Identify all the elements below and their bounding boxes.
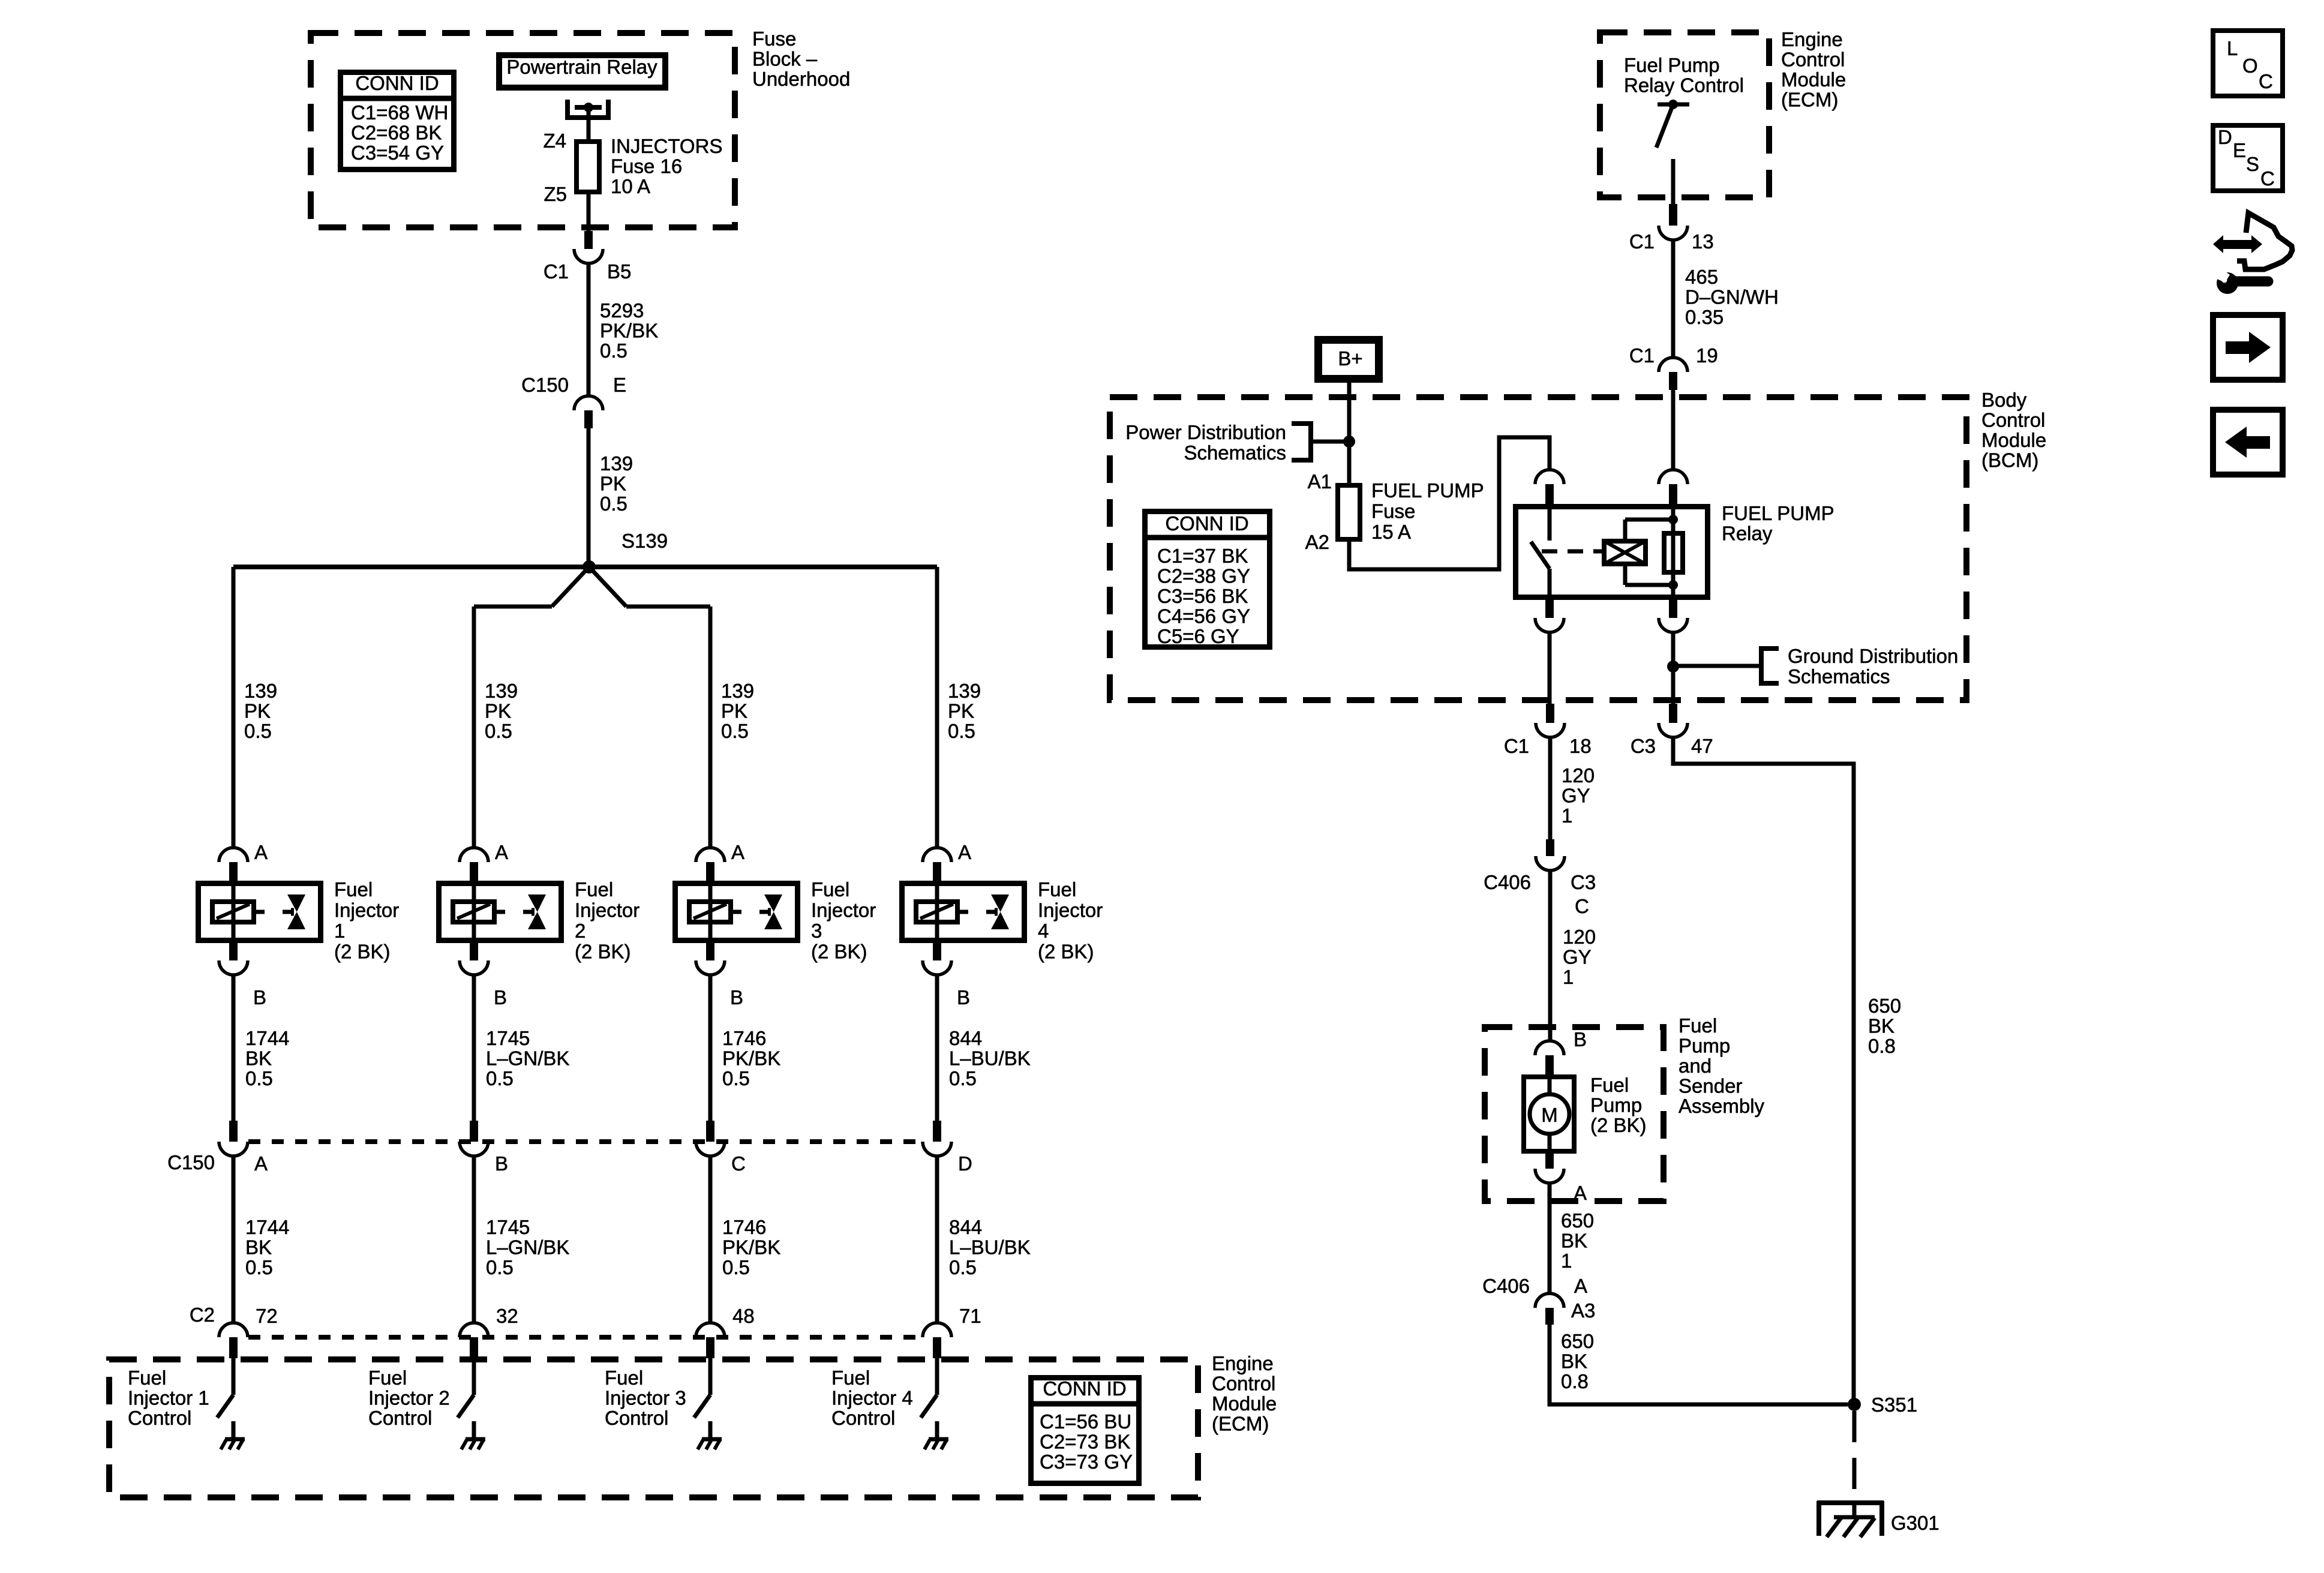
svg-text:L–GN/BK: L–GN/BK bbox=[486, 1236, 569, 1259]
body control module box bbox=[1110, 397, 1966, 700]
wire branch to injector 2 bbox=[552, 567, 589, 607]
label Fuel Pump (2 BK) bbox=[1590, 1074, 1647, 1136]
pin 72 C2 bbox=[256, 1305, 278, 1327]
svg-text:47: 47 bbox=[1691, 735, 1713, 757]
relay contact bar bbox=[575, 105, 602, 110]
pin Z4 bbox=[543, 130, 566, 152]
svg-text:C1: C1 bbox=[544, 260, 569, 283]
pin 47 bbox=[1691, 735, 1713, 757]
svg-text:CONN ID: CONN ID bbox=[1043, 1377, 1126, 1400]
icon vehicle with arrow and wrench bbox=[2212, 213, 2292, 294]
pin B injector 4 bbox=[957, 986, 970, 1008]
svg-text:C150: C150 bbox=[521, 374, 569, 396]
svg-text:S: S bbox=[2246, 153, 2259, 175]
svg-text:BK: BK bbox=[245, 1236, 272, 1259]
letter D bbox=[2218, 126, 2232, 148]
svg-text:M: M bbox=[1541, 1104, 1558, 1126]
svg-text:C2=73 BK: C2=73 BK bbox=[1040, 1431, 1130, 1453]
pin B injector 2 bbox=[494, 986, 507, 1008]
label Powertrain Relay bbox=[506, 56, 657, 78]
pin A injector 4 bbox=[958, 841, 971, 863]
wire 139 PK branch injector 1 bbox=[232, 567, 236, 848]
svg-text:1745: 1745 bbox=[486, 1027, 530, 1049]
svg-text:Injector: Injector bbox=[575, 899, 639, 921]
svg-text:1: 1 bbox=[334, 920, 345, 942]
svg-text:0.8: 0.8 bbox=[1561, 1370, 1589, 1392]
fuel injector 2 bbox=[439, 881, 562, 943]
wire 1744 BK lower bbox=[232, 1156, 236, 1323]
junction ground distribution tap bbox=[1667, 661, 1679, 673]
wire 1744 BK upper bbox=[232, 975, 236, 1121]
svg-text:PK: PK bbox=[485, 700, 511, 722]
svg-text:A3: A3 bbox=[1571, 1299, 1595, 1322]
wire fuse 16 to C1 B5 bbox=[587, 194, 591, 232]
wire label 1746 PK/BK 0.5 bbox=[722, 1027, 780, 1089]
svg-text:S139: S139 bbox=[621, 530, 668, 552]
label Fuel Injector 2 Control bbox=[368, 1367, 450, 1429]
svg-text:S351: S351 bbox=[1871, 1394, 1917, 1416]
connector line C150 bbox=[248, 1139, 922, 1144]
engine control module box (top right) bbox=[1600, 32, 1769, 197]
svg-text:E: E bbox=[2233, 139, 2246, 161]
svg-text:Relay: Relay bbox=[1722, 523, 1773, 545]
relay contact node bbox=[584, 103, 593, 112]
svg-text:120: 120 bbox=[1562, 764, 1595, 786]
svg-text:0.5: 0.5 bbox=[244, 720, 272, 742]
connector C1 pin B5 bbox=[574, 231, 603, 263]
svg-text:Injector: Injector bbox=[334, 899, 399, 921]
svg-text:139: 139 bbox=[244, 680, 277, 702]
pin B injector 3 bbox=[730, 986, 743, 1008]
connector line C2 bbox=[248, 1335, 922, 1340]
pin 13 bbox=[1692, 230, 1714, 253]
svg-text:0.5: 0.5 bbox=[949, 1067, 977, 1089]
svg-text:Control: Control bbox=[128, 1407, 191, 1429]
wire 139 PK branch injector 3 bbox=[708, 607, 713, 848]
svg-text:C2=68 BK: C2=68 BK bbox=[351, 122, 442, 144]
pin A fuel pump bbox=[1574, 1182, 1587, 1204]
svg-text:C3=73 GY: C3=73 GY bbox=[1040, 1451, 1133, 1473]
svg-text:Ground Distribution: Ground Distribution bbox=[1788, 645, 1958, 667]
ECM driver switch fuel injector 4 control bbox=[921, 1358, 937, 1438]
svg-text:B+: B+ bbox=[1338, 347, 1362, 370]
wire 844 L–BU/BK lower bbox=[935, 1156, 939, 1323]
CONN ID table (fuse block) bbox=[340, 73, 454, 170]
svg-text:0.5: 0.5 bbox=[948, 720, 975, 742]
svg-text:E: E bbox=[613, 374, 626, 396]
fuse block underhood box bbox=[311, 33, 735, 227]
svg-text:L–GN/BK: L–GN/BK bbox=[486, 1047, 569, 1070]
relay pin connector (coil top) bbox=[1659, 470, 1688, 504]
svg-text:1: 1 bbox=[1563, 966, 1574, 988]
pin A injector 2 bbox=[495, 841, 508, 863]
connector C2 pin 72 bbox=[219, 1323, 248, 1358]
svg-text:0.35: 0.35 bbox=[1685, 306, 1724, 328]
svg-text:Fuel: Fuel bbox=[1038, 878, 1076, 900]
svg-text:(2 BK): (2 BK) bbox=[1590, 1114, 1647, 1136]
svg-text:B: B bbox=[494, 986, 507, 1008]
svg-text:Fuel: Fuel bbox=[368, 1367, 407, 1389]
label Fuel Injector 1 Control bbox=[128, 1367, 209, 1429]
pin B injector 1 bbox=[253, 986, 266, 1008]
wire label 465 D-GN/WH 0.35 bbox=[1685, 266, 1779, 328]
svg-text:Fuse 16: Fuse 16 bbox=[611, 155, 682, 178]
svg-text:Module: Module bbox=[1981, 429, 2046, 451]
pin B C150 bbox=[495, 1152, 508, 1175]
svg-text:0.5: 0.5 bbox=[486, 1256, 514, 1278]
pin 19 bbox=[1696, 344, 1718, 367]
svg-text:Fuel: Fuel bbox=[605, 1367, 643, 1389]
svg-text:0.5: 0.5 bbox=[722, 1256, 750, 1278]
wire label 650 BK 0.8 right bbox=[1868, 995, 1901, 1057]
wire 1746 PK/BK lower bbox=[708, 1156, 713, 1323]
connector pin B injector 1 bbox=[219, 943, 248, 975]
label Body Control Module (BCM) bbox=[1981, 389, 2046, 472]
svg-text:Injector 1: Injector 1 bbox=[128, 1387, 209, 1409]
fuel injector 4 bbox=[902, 881, 1025, 943]
svg-text:Schematics: Schematics bbox=[1788, 665, 1890, 688]
connector C150 pin C bbox=[696, 1121, 725, 1156]
ECM fuel pump relay control driver switch bbox=[1656, 100, 1689, 204]
svg-text:4: 4 bbox=[1038, 920, 1049, 942]
svg-text:Fuel: Fuel bbox=[128, 1367, 166, 1389]
label Fuel Injector 3 (2 BK) bbox=[811, 878, 876, 963]
svg-text:Control: Control bbox=[1781, 49, 1845, 71]
wire label 1746 PK/BK 0.5 lower bbox=[722, 1216, 780, 1278]
svg-text:Schematics: Schematics bbox=[1184, 442, 1286, 464]
svg-text:465: 465 bbox=[1685, 266, 1718, 288]
ECM driver switch fuel injector 2 control bbox=[458, 1358, 474, 1438]
ground G301 bbox=[1817, 1501, 1884, 1537]
svg-text:48: 48 bbox=[732, 1305, 755, 1327]
connector C1 pin 13 bbox=[1659, 204, 1688, 240]
wire relay coil to C3 47 bbox=[1671, 632, 1676, 704]
wire label 1744 BK 0.5 bbox=[245, 1027, 289, 1089]
connector C2 pin 48 bbox=[696, 1323, 725, 1358]
relay pin connector (switch bottom) bbox=[1535, 600, 1564, 632]
label C3 (47) bbox=[1631, 735, 1656, 757]
svg-text:0.5: 0.5 bbox=[600, 493, 627, 515]
pin 71 C2 bbox=[959, 1305, 981, 1327]
connector C406 pin C3/C bbox=[1536, 839, 1565, 870]
connector C406 pin A/A3 bbox=[1535, 1293, 1564, 1325]
wire 139 PK branch injector 2 bbox=[472, 607, 476, 848]
pin 32 C2 bbox=[496, 1305, 518, 1327]
svg-text:(ECM): (ECM) bbox=[1212, 1413, 1269, 1435]
CONN ID table (ECM) bbox=[1031, 1378, 1139, 1484]
pin A C406 bbox=[1574, 1275, 1587, 1297]
svg-text:15 A: 15 A bbox=[1371, 521, 1411, 543]
svg-text:C1: C1 bbox=[1629, 344, 1655, 367]
label Schematics (ground) bbox=[1788, 665, 1890, 688]
svg-text:Engine: Engine bbox=[1781, 28, 1843, 50]
svg-text:0.5: 0.5 bbox=[485, 720, 512, 742]
svg-text:C1=37 BK: C1=37 BK bbox=[1157, 545, 1248, 567]
svg-text:10 A: 10 A bbox=[611, 175, 650, 197]
svg-text:B: B bbox=[957, 986, 970, 1008]
ECM driver switch fuel injector 3 control bbox=[694, 1358, 710, 1438]
svg-text:C: C bbox=[2260, 167, 2275, 190]
svg-text:18: 18 bbox=[1569, 735, 1592, 757]
svg-text:0.5: 0.5 bbox=[722, 1067, 750, 1089]
svg-text:C1: C1 bbox=[1504, 735, 1529, 757]
svg-text:BK: BK bbox=[1868, 1015, 1894, 1037]
svg-text:1744: 1744 bbox=[245, 1027, 289, 1049]
wire label 1745 L–GN/BK 0.5 lower bbox=[486, 1216, 569, 1278]
svg-text:L: L bbox=[2227, 37, 2238, 59]
svg-text:139: 139 bbox=[600, 452, 633, 475]
pin A3 C406 bbox=[1571, 1299, 1595, 1322]
powertrain relay contact bracket bbox=[568, 100, 608, 118]
svg-text:GY: GY bbox=[1562, 785, 1590, 807]
svg-text:C1: C1 bbox=[1629, 230, 1655, 253]
svg-text:Pump: Pump bbox=[1679, 1035, 1730, 1057]
svg-text:(2 BK): (2 BK) bbox=[575, 941, 631, 963]
label Fuel Injector 1 (2 BK) bbox=[334, 878, 399, 963]
svg-text:A: A bbox=[254, 1152, 268, 1175]
svg-text:0.5: 0.5 bbox=[949, 1256, 977, 1278]
svg-text:0.5: 0.5 bbox=[721, 720, 749, 742]
svg-text:BK: BK bbox=[1561, 1350, 1587, 1373]
connector C150 pin D bbox=[923, 1121, 951, 1156]
svg-text:A: A bbox=[1574, 1275, 1587, 1297]
connector pin A injector 3 bbox=[696, 848, 725, 881]
svg-text:Power Distribution: Power Distribution bbox=[1125, 421, 1286, 443]
ECM driver switch fuel injector 1 control bbox=[217, 1358, 233, 1438]
wire relay output to C1 18 bbox=[1548, 632, 1552, 704]
pin A injector 3 bbox=[731, 841, 744, 863]
junction B+ feed bbox=[1343, 436, 1355, 448]
label C1 (13) bbox=[1629, 230, 1655, 253]
svg-text:C5=6 GY: C5=6 GY bbox=[1157, 625, 1239, 647]
svg-text:120: 120 bbox=[1563, 926, 1596, 948]
svg-text:CONN ID: CONN ID bbox=[1165, 512, 1248, 535]
splice S351 bbox=[1848, 1398, 1861, 1411]
letter O bbox=[2242, 55, 2258, 77]
svg-text:C3=56 BK: C3=56 BK bbox=[1157, 585, 1248, 607]
connector C150 pin B bbox=[460, 1121, 488, 1156]
svg-text:Pump: Pump bbox=[1590, 1094, 1642, 1116]
svg-text:FUEL PUMP: FUEL PUMP bbox=[1371, 479, 1484, 502]
fuel injector 3 bbox=[675, 881, 798, 943]
wire into BCM bbox=[1671, 390, 1676, 470]
svg-text:A: A bbox=[495, 841, 508, 863]
svg-text:(2 BK): (2 BK) bbox=[811, 941, 867, 963]
splice S139 bbox=[582, 560, 596, 574]
svg-text:FUEL PUMP: FUEL PUMP bbox=[1722, 502, 1834, 524]
wire 1745 L–GN/BK lower bbox=[472, 1156, 476, 1323]
svg-text:Injector 4: Injector 4 bbox=[831, 1387, 913, 1409]
svg-text:C3: C3 bbox=[1571, 871, 1596, 893]
pin C3 C406 bbox=[1571, 871, 1596, 893]
svg-text:Control: Control bbox=[831, 1407, 895, 1429]
label splice S139 bbox=[621, 530, 668, 552]
B+ battery feed box bbox=[1319, 340, 1379, 379]
wire label 120 GY 1 upper bbox=[1562, 764, 1595, 827]
label C1 bbox=[544, 260, 569, 283]
svg-text:844: 844 bbox=[949, 1027, 982, 1049]
svg-text:BK: BK bbox=[245, 1047, 272, 1070]
svg-text:GY: GY bbox=[1563, 946, 1592, 968]
ground symbol injector 1 driver bbox=[221, 1439, 245, 1449]
svg-text:A: A bbox=[254, 841, 268, 863]
wire label 650 BK 0.8 left bbox=[1561, 1330, 1594, 1392]
label Fuel Injector 3 Control bbox=[605, 1367, 686, 1429]
pin E bbox=[613, 374, 626, 396]
letter E bbox=[2233, 139, 2246, 161]
svg-text:C3: C3 bbox=[1631, 735, 1656, 757]
connector fuel pump pin A bbox=[1535, 1154, 1564, 1183]
letter S bbox=[2246, 153, 2259, 175]
label CONN ID header BCM bbox=[1165, 512, 1248, 535]
fuel injector 1 bbox=[199, 881, 321, 943]
svg-text:PK/BK: PK/BK bbox=[600, 320, 658, 342]
svg-text:O: O bbox=[2242, 55, 2258, 77]
wire 650 BK 1 bbox=[1548, 1183, 1552, 1293]
label Engine Control Module (ECM) top bbox=[1781, 28, 1846, 111]
pin Z5 bbox=[544, 183, 567, 205]
label Fuse Block - Underhood bbox=[752, 28, 850, 90]
wire label 120 GY 1 lower bbox=[1563, 926, 1596, 988]
svg-text:Injector 3: Injector 3 bbox=[605, 1387, 686, 1409]
pin 48 C2 bbox=[732, 1305, 755, 1327]
label CONN ID header ECM bbox=[1043, 1377, 1126, 1400]
svg-text:BK: BK bbox=[1561, 1230, 1587, 1252]
wire branch to injector 3 bbox=[589, 567, 626, 607]
svg-text:13: 13 bbox=[1692, 230, 1714, 253]
relay pin connector (switch top) bbox=[1535, 470, 1564, 504]
svg-text:Fuel: Fuel bbox=[831, 1367, 870, 1389]
label C150 line bbox=[167, 1151, 215, 1173]
svg-text:C1=68 WH: C1=68 WH bbox=[351, 101, 448, 124]
conn id rows BCM bbox=[1157, 545, 1250, 647]
label Ground Distribution bbox=[1788, 645, 1958, 667]
svg-text:650: 650 bbox=[1561, 1209, 1594, 1232]
svg-text:Body: Body bbox=[1981, 389, 2027, 411]
svg-text:L–BU/BK: L–BU/BK bbox=[949, 1236, 1031, 1259]
svg-text:(BCM): (BCM) bbox=[1981, 449, 2038, 472]
svg-text:C150: C150 bbox=[167, 1151, 215, 1173]
ground symbol injector 3 driver bbox=[698, 1439, 722, 1449]
power distribution schematics bracket bbox=[1292, 424, 1349, 460]
fuel pump motor M1 bbox=[1524, 1074, 1574, 1154]
svg-text:1746: 1746 bbox=[722, 1027, 766, 1049]
svg-text:A: A bbox=[958, 841, 971, 863]
connector C1 pin 19 bbox=[1659, 358, 1688, 390]
wire 5293 PK/BK bbox=[587, 263, 591, 396]
svg-text:(2 BK): (2 BK) bbox=[1038, 941, 1094, 963]
icon DESC box bbox=[2213, 125, 2283, 191]
svg-text:Fuel: Fuel bbox=[811, 878, 849, 900]
wire label 139 PK 0.5 branch 2 bbox=[485, 680, 518, 742]
connector C2 pin 71 bbox=[923, 1323, 951, 1358]
pin A1 bbox=[1308, 470, 1332, 493]
letter C bbox=[2259, 70, 2273, 92]
wire B+ to fuel pump fuse bbox=[1347, 383, 1352, 483]
svg-text:Sender: Sender bbox=[1679, 1075, 1742, 1097]
svg-text:(ECM): (ECM) bbox=[1781, 89, 1838, 111]
connector pin A injector 2 bbox=[460, 848, 488, 881]
svg-text:139: 139 bbox=[721, 680, 754, 702]
wire label 139 PK 0.5 branch 3 bbox=[721, 680, 754, 742]
svg-text:and: and bbox=[1679, 1055, 1712, 1077]
letter C2 bbox=[2260, 167, 2275, 190]
svg-text:0.5: 0.5 bbox=[245, 1067, 273, 1089]
svg-text:Module: Module bbox=[1212, 1392, 1277, 1415]
svg-text:PK: PK bbox=[600, 473, 626, 495]
svg-text:32: 32 bbox=[496, 1305, 518, 1327]
svg-text:650: 650 bbox=[1561, 1330, 1594, 1352]
label CONN ID header bbox=[355, 72, 439, 94]
wire 120 GY upper bbox=[1548, 737, 1553, 839]
wire 650 BK 0.8 from C3 47 to S351 bbox=[1673, 737, 1854, 1404]
label C406 (C3) bbox=[1484, 871, 1531, 893]
svg-text:Control: Control bbox=[1981, 409, 2045, 431]
conn id rows C1=68 WH C2=68 BK C3=54 GY bbox=[351, 101, 448, 164]
label INJECTORS Fuse 16 10 A bbox=[611, 135, 722, 197]
CONN ID table (BCM) bbox=[1145, 512, 1270, 647]
svg-text:Underhood: Underhood bbox=[752, 68, 850, 90]
svg-text:Z5: Z5 bbox=[544, 183, 567, 205]
svg-text:1744: 1744 bbox=[245, 1216, 289, 1238]
svg-text:PK: PK bbox=[721, 700, 747, 722]
svg-text:Z4: Z4 bbox=[543, 130, 566, 152]
label C1 (18) bbox=[1504, 735, 1529, 757]
wire 844 L–BU/BK upper bbox=[935, 975, 939, 1121]
svg-text:(2 BK): (2 BK) bbox=[334, 941, 391, 963]
connector C2 pin 32 bbox=[460, 1323, 488, 1358]
svg-text:Fuse: Fuse bbox=[752, 28, 796, 50]
svg-text:B: B bbox=[253, 986, 266, 1008]
ground symbol injector 4 driver bbox=[924, 1439, 948, 1449]
wire label 1744 BK 0.5 lower bbox=[245, 1216, 289, 1278]
svg-text:Injector: Injector bbox=[811, 899, 876, 921]
svg-text:Injector: Injector bbox=[1038, 899, 1103, 921]
conn id rows C1=56 BU C2=73 BK C3=73 GY bbox=[1040, 1410, 1133, 1473]
svg-text:1745: 1745 bbox=[486, 1216, 530, 1238]
wire label 139 PK 0.5 branch 4 bbox=[948, 680, 981, 742]
FUEL PUMP relay bbox=[1516, 504, 1708, 600]
label splice S351 bbox=[1871, 1394, 1917, 1416]
svg-text:C: C bbox=[1575, 895, 1589, 917]
svg-text:C1=56 BU: C1=56 BU bbox=[1040, 1410, 1131, 1433]
svg-text:1746: 1746 bbox=[722, 1216, 766, 1238]
wire 465 D-GN/WH bbox=[1671, 240, 1676, 358]
svg-text:C: C bbox=[2259, 70, 2273, 92]
svg-text:Fuel: Fuel bbox=[334, 878, 373, 900]
svg-text:Fuel: Fuel bbox=[1679, 1014, 1717, 1037]
label C150 bbox=[521, 374, 569, 396]
svg-text:0.8: 0.8 bbox=[1868, 1035, 1896, 1057]
svg-text:D: D bbox=[2218, 126, 2232, 148]
fuel pump and sender assembly box bbox=[1485, 1027, 1664, 1201]
svg-text:844: 844 bbox=[949, 1216, 982, 1238]
pin C C406 bbox=[1575, 895, 1589, 917]
svg-text:D–GN/WH: D–GN/WH bbox=[1685, 286, 1779, 308]
svg-text:C2=38 GY: C2=38 GY bbox=[1157, 565, 1250, 587]
pin B5 bbox=[607, 260, 631, 283]
label C1 (19) bbox=[1629, 344, 1655, 367]
svg-text:Engine: Engine bbox=[1212, 1352, 1274, 1374]
label FUEL PUMP Fuse 15 A bbox=[1371, 479, 1484, 543]
label Power Distribution bbox=[1125, 421, 1286, 443]
svg-text:Injector 2: Injector 2 bbox=[368, 1387, 450, 1409]
svg-text:5293: 5293 bbox=[600, 299, 644, 322]
svg-text:139: 139 bbox=[485, 680, 518, 702]
svg-text:A2: A2 bbox=[1305, 531, 1329, 553]
wire 1746 PK/BK upper bbox=[708, 975, 713, 1121]
label FUEL PUMP Relay bbox=[1722, 502, 1834, 545]
